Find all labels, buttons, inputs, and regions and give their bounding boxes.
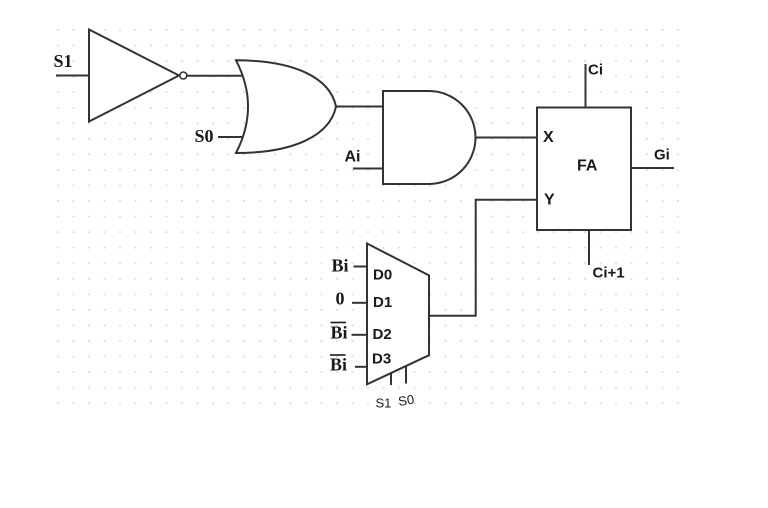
wire S1 input [56,75,89,77]
wire Gi output [631,167,674,169]
svg-text:Y: Y [544,192,555,209]
svg-text:X: X [543,129,554,146]
wire Bi-bar to D2 [352,334,368,336]
mux M1 [367,244,429,385]
svg-text:Bi: Bi [331,323,348,343]
label Bi-bar (D2 input) [331,323,348,343]
svg-text:FA: FA [577,158,598,175]
wire select S1 [390,373,392,386]
label Bi-bar (D3 input) [330,355,347,375]
wire AND output to FA X [476,137,538,139]
svg-text:Gi: Gi [654,147,670,164]
wire OR output to AND gate [334,106,384,108]
wire inverter output to OR gate [186,75,245,77]
wire Ci+1 output [588,230,590,265]
wire Ai input [353,168,384,170]
full adder FA [537,108,631,231]
wire Bi-bar to D3 [355,366,367,368]
or-gate U2 [236,60,336,153]
svg-text:S0: S0 [195,126,214,146]
wire select S0 [405,366,407,384]
svg-text:D2: D2 [373,326,392,343]
svg-text:S1: S1 [54,51,73,71]
inverter U1 [89,30,179,122]
svg-text:D1: D1 [373,294,392,311]
wire Bi to D0 [354,266,368,268]
inverter bubble [180,72,187,79]
svg-text:Bi: Bi [332,256,349,276]
svg-text:Ci: Ci [588,62,603,79]
svg-text:Ai: Ai [345,149,361,166]
and-gate U3 [383,91,476,184]
wire 0 to D1 [352,302,367,304]
wire mux output to FA Y [429,200,537,316]
svg-text:S1: S1 [376,396,392,411]
wire Ci input [585,64,587,107]
svg-text:S0: S0 [397,392,415,409]
wire S0 input [218,136,248,138]
svg-text:D3: D3 [372,351,391,368]
svg-text:D0: D0 [373,267,392,284]
svg-text:Ci+1: Ci+1 [593,265,625,282]
svg-text:0: 0 [336,289,345,309]
svg-text:Bi: Bi [330,355,347,375]
